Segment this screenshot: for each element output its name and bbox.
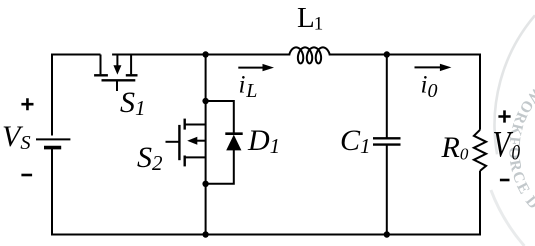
svg-text:S2: S2 [137,141,163,175]
transistor S2 source bar [183,156,185,167]
current arrow iL line [238,67,264,69]
transistor S2 drain stub [185,124,206,126]
minus sign VS [21,174,32,177]
wire top rail right [330,55,480,130]
svg-text:R0: R0 [441,131,469,164]
transistor S1 drain stub [100,55,102,75]
capacitor C1 plates [373,137,401,139]
svg-text:i0: i0 [421,72,438,102]
battery VS bottom plate [44,146,61,150]
current arrow i0 line [415,66,442,68]
capacitor C1 wire upper [386,55,388,139]
inductor L1 [289,47,330,63]
transistor S2 drain bar [183,119,185,130]
svg-text:C1: C1 [340,124,371,158]
transistor S1 body arrowhead [113,65,121,74]
wire right rail lower [52,148,480,235]
battery VS top plate [36,138,70,140]
diode D1 branch wire upper [206,101,234,134]
transistor S2 gate line [178,125,180,160]
current arrow i0 head [440,64,452,71]
wire middle branch [205,55,207,235]
junction node C1 bottom [384,231,390,237]
plus sign V0 [498,110,510,122]
minus sign V0 [500,179,510,182]
current arrow iL head [263,64,275,71]
junction node bottom rail S2 [202,231,208,237]
svg-text:iL: iL [239,72,258,102]
transistor S2 gate stub [166,141,180,143]
transistor S2 body wire [197,140,206,142]
resistor R0 [474,130,486,171]
junction node C1 top [384,51,390,57]
junction node top switch [202,51,208,57]
plus sign VS [21,98,33,110]
capacitor C1 wire lower [386,145,388,235]
transistor S2 source stub [185,156,206,158]
junction node D1 bottom [202,181,208,187]
transistor S2 body arrowhead [187,137,197,145]
transistor S1 body wire [116,55,118,67]
svg-text:S1: S1 [120,86,146,120]
svg-text:WORKFORCE DE: WORKFORCE DE [0,0,535,213]
svg-text:L1: L1 [297,2,323,35]
diode D1 branch wire lower [206,150,234,184]
watermark seal ring [495,15,535,154]
transistor S1 drain bar [94,74,108,76]
transistor S1 source stub [130,55,132,75]
wire top rail left [52,55,101,136]
transistor S1 gate stub [116,80,118,91]
watermark outer arc bottom right [491,190,525,246]
diode D1 triangle [226,135,241,151]
svg-text:D1: D1 [247,124,280,158]
wire top rail middle [112,54,289,56]
svg-text:VS: VS [2,120,31,154]
junction node D1 top [202,98,208,104]
transistor S1 source bar [126,74,138,76]
transistor S1 gate line [102,79,136,81]
diode D1 cathode bar [225,132,242,135]
